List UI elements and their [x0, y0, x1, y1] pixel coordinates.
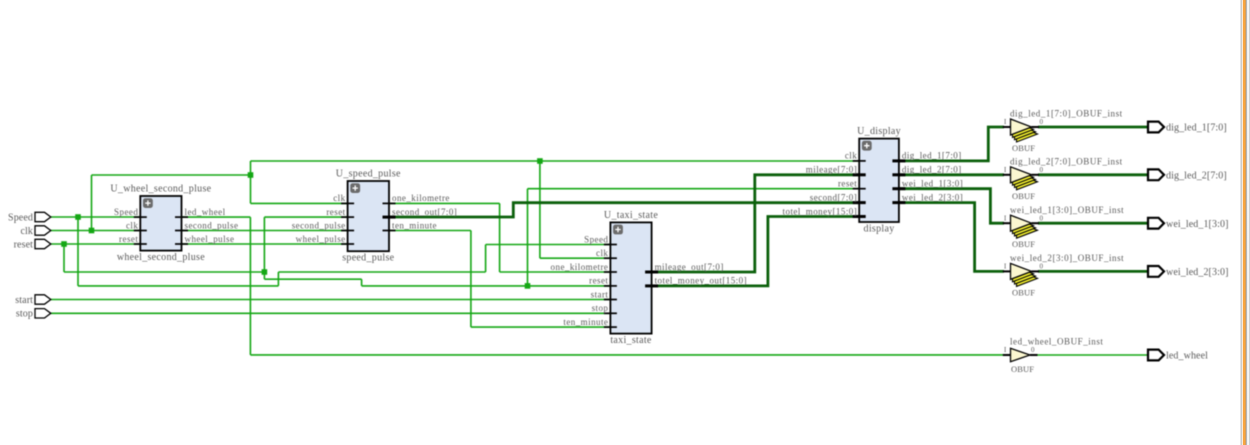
- svg-text:reset: reset: [838, 179, 857, 189]
- svg-text:Speed: Speed: [584, 234, 608, 244]
- svg-text:dig_led_2[7:0]: dig_led_2[7:0]: [1166, 170, 1227, 181]
- wire: bus dig_led_2[7:0] OBUF to output port: [1038, 173, 1149, 176]
- svg-text:wei_led_1[3:0]: wei_led_1[3:0]: [902, 179, 963, 189]
- svg-text:stop: stop: [16, 309, 33, 320]
- svg-text:OBUF: OBUF: [1011, 364, 1034, 374]
- svg-text:wheel_pulse: wheel_pulse: [296, 234, 346, 244]
- wire: net reset jog down at x=361.6: [361, 279, 363, 286]
- svg-text:0: 0: [1040, 263, 1044, 271]
- svg-text:second_pulse: second_pulse: [292, 220, 346, 230]
- block: U_wheel_second_pluse (wheel_second_pluse): [110, 184, 238, 264]
- wire: bus second_out[7:0] from U_speed_pulse: [389, 203, 861, 217]
- port: input Speed: [8, 212, 51, 223]
- buffer: dig_led_1[7:0]_OBUF_inst (OBUF): [1003, 109, 1123, 153]
- svg-text:wei_led_2[3:0]: wei_led_2[3:0]: [902, 192, 963, 202]
- svg-text:ten_minute: ten_minute: [563, 317, 608, 327]
- wire: bus wei_led_1[3:0] OBUF to output port: [1038, 222, 1149, 225]
- wire: bus wei_led_1[3:0] from U_display to OBUF: [899, 189, 1005, 224]
- wire: net clk branch into U_taxi_state clk pin: [540, 257, 611, 259]
- svg-text:reset: reset: [326, 207, 345, 217]
- port: output dig_led_2[7:0]: [1148, 169, 1227, 181]
- wire: net led_wheel long vertical at x=250.4: [249, 217, 251, 355]
- wire: net Speed into U_taxi_state Speed pin: [486, 244, 611, 246]
- svg-text:ten_minute: ten_minute: [392, 220, 437, 230]
- svg-text:mileage_out[7:0]: mileage_out[7:0]: [655, 262, 724, 272]
- svg-text:totel_money_out[15:0]: totel_money_out[15:0]: [655, 276, 747, 286]
- svg-text:I: I: [1004, 118, 1007, 126]
- svg-text:Speed: Speed: [8, 212, 33, 223]
- svg-text:I: I: [1004, 214, 1007, 222]
- svg-text:clk: clk: [845, 151, 857, 161]
- svg-text:clk: clk: [596, 248, 608, 258]
- wire: net ten_minute into U_taxi_state pin: [471, 326, 611, 328]
- svg-text:dig_led_2[7:0]: dig_led_2[7:0]: [902, 165, 962, 175]
- wire: net clk horizontal run y=175: [92, 174, 251, 176]
- svg-text:wei_led_1[3:0]_OBUF_inst: wei_led_1[3:0]_OBUF_inst: [1010, 205, 1124, 215]
- svg-text:one_kilometre: one_kilometre: [392, 193, 450, 203]
- wire: net led_wheel OBUF to output port: [1037, 354, 1150, 356]
- svg-text:wei_led_2[3:0]: wei_led_2[3:0]: [1166, 267, 1229, 278]
- svg-text:U_taxi_state: U_taxi_state: [604, 210, 658, 221]
- wire: net reset horizontal run y=272: [64, 271, 264, 273]
- svg-text:OBUF: OBUF: [1012, 287, 1035, 297]
- svg-text:wheel_pulse: wheel_pulse: [185, 234, 235, 244]
- node: junction clk at (539.9,161): [537, 158, 543, 164]
- wire: net reset horizontal run y=285.9 into U_taxi_state reset pin: [362, 285, 611, 287]
- svg-text:speed_pulse: speed_pulse: [342, 253, 394, 264]
- wire: net reset vertical rise at x=264.4 to U_speed_pulse reset row: [263, 217, 265, 272]
- svg-text:wei_led_2[3:0]_OBUF_inst: wei_led_2[3:0]_OBUF_inst: [1010, 253, 1124, 263]
- node: junction reset at (64,244): [61, 241, 67, 247]
- wire: net clk from input port to U_wheel_second_pluse: [50, 230, 141, 232]
- wire: net reset into U_speed_pulse reset pin: [264, 216, 348, 218]
- wire: net stop from input port to U_taxi_state: [50, 312, 611, 314]
- svg-text:second[7:0]: second[7:0]: [810, 192, 857, 202]
- wire: net start from input port to U_taxi_state: [50, 299, 611, 301]
- node: junction reset at (264.4,272): [262, 269, 268, 275]
- wire: net Speed vertical rise at x=485.6: [485, 245, 487, 273]
- wire: bus dig_led_1[7:0] from U_display to OBUF: [899, 127, 1005, 161]
- svg-text:taxi_state: taxi_state: [610, 335, 652, 346]
- svg-text:second_out[7:0]: second_out[7:0]: [392, 207, 457, 217]
- block: U_display (display): [783, 126, 964, 234]
- buffer: dig_led_2[7:0]_OBUF_inst (OBUF): [1003, 157, 1123, 201]
- wire: net clk vertical at x=250.5: [250, 161, 252, 203]
- wire: net one_kilometre from U_speed_pulse output: [389, 202, 500, 204]
- port: input stop: [16, 309, 51, 320]
- svg-text:led_wheel: led_wheel: [1166, 351, 1208, 362]
- svg-text:U_display: U_display: [857, 126, 901, 137]
- wire: net Speed from input port to U_wheel_second_pluse: [50, 216, 141, 218]
- svg-text:led_wheel: led_wheel: [185, 207, 226, 217]
- wire: net clk branch into U_speed_pulse clk pin: [251, 202, 349, 204]
- wire: net reset from input port to U_wheel_second_pluse: [50, 243, 141, 245]
- svg-text:0: 0: [1040, 166, 1044, 174]
- svg-text:0: 0: [1031, 346, 1035, 354]
- svg-text:dig_led_1[7:0]: dig_led_1[7:0]: [1166, 123, 1227, 134]
- wire: net Speed horizontal run y=285.9: [78, 285, 278, 287]
- svg-text:U_wheel_second_pluse: U_wheel_second_pluse: [110, 184, 211, 195]
- wire: net clk branch vertical at x=539.9 down to U_taxi_state: [539, 161, 541, 258]
- wire: net ten_minute vertical drop at x=470.9: [470, 231, 472, 328]
- node: junction Speed at (78,217): [75, 214, 81, 220]
- svg-text:second_pulse: second_pulse: [185, 220, 239, 230]
- port: output led_wheel: [1148, 350, 1208, 362]
- wire: net led_wheel long horizontal y=354.9 to OBUF: [250, 354, 1004, 356]
- svg-text:I: I: [1004, 166, 1007, 174]
- svg-text:0: 0: [1040, 118, 1044, 126]
- wire: net reset vertical drop at x=64: [63, 244, 65, 272]
- wire: bus wei_led_2[3:0] from U_display to OBUF: [899, 203, 1005, 272]
- svg-text:U_speed_pulse: U_speed_pulse: [336, 169, 401, 180]
- port: input reset: [14, 239, 51, 250]
- port: input start: [15, 295, 51, 306]
- wire: net one_kilometre into U_taxi_state pin: [500, 271, 611, 273]
- svg-text:totel_money[15:0]: totel_money[15:0]: [783, 206, 858, 216]
- wire: net Speed vertical rise at x=278.4: [277, 272, 279, 286]
- port: output wei_led_2[3:0]: [1148, 266, 1229, 278]
- svg-text:0: 0: [1040, 214, 1044, 222]
- svg-text:OBUF: OBUF: [1012, 143, 1035, 153]
- block: U_speed_pulse (speed_pulse): [292, 169, 458, 264]
- wire: net second_pulse from U_wheel_second_pluse to U_speed_pulse: [181, 230, 348, 232]
- wire: bus wei_led_2[3:0] OBUF to output port: [1038, 270, 1149, 273]
- wire: bus dig_led_2[7:0] from U_display to OBUF: [899, 173, 1005, 176]
- wire: net Speed vertical drop at x=78: [77, 217, 79, 286]
- wire: net wheel_pulse from U_wheel_second_pluse to U_speed_pulse: [181, 243, 348, 245]
- buffer: wei_led_2[3:0]_OBUF_inst (OBUF): [1003, 253, 1124, 297]
- node: junction reset at (527.5,285.9): [525, 283, 531, 289]
- svg-text:clk: clk: [20, 226, 33, 237]
- wire: net reset horizontal run y=279.2: [264, 278, 361, 280]
- svg-text:dig_led_1[7:0]_OBUF_inst: dig_led_1[7:0]_OBUF_inst: [1010, 109, 1123, 119]
- wire: net Speed horizontal run y=272: [278, 271, 485, 273]
- wire: net led_wheel from U_wheel_second_pluse output: [181, 216, 250, 218]
- svg-text:reset: reset: [119, 234, 138, 244]
- svg-text:OBUF: OBUF: [1012, 239, 1035, 249]
- buffer: led_wheel_OBUF_inst (OBUF): [1003, 337, 1104, 374]
- svg-text:dig_led_1[7:0]: dig_led_1[7:0]: [902, 151, 962, 161]
- svg-text:start: start: [591, 289, 609, 299]
- svg-text:start: start: [15, 295, 33, 306]
- wire: bus dig_led_1[7:0] OBUF to output port: [1038, 126, 1149, 129]
- svg-text:one_kilometre: one_kilometre: [551, 262, 609, 272]
- svg-text:I: I: [1004, 346, 1007, 354]
- svg-text:clk: clk: [126, 220, 138, 230]
- svg-text:Speed: Speed: [114, 207, 138, 217]
- svg-text:reset: reset: [14, 239, 33, 250]
- wire: net clk vertical rise at x=91.5: [91, 175, 93, 231]
- svg-text:dig_led_2[7:0]_OBUF_inst: dig_led_2[7:0]_OBUF_inst: [1010, 157, 1123, 167]
- wire: bus totel_money_out[15:0] from U_taxi_state to U_display: [651, 217, 860, 286]
- svg-text:stop: stop: [592, 303, 609, 313]
- wire: net clk long horizontal run y=161 to U_display clk: [251, 160, 861, 162]
- svg-text:OBUF: OBUF: [1012, 191, 1035, 201]
- wire: net reset jog down at x=264.4: [263, 272, 265, 279]
- buffer: wei_led_1[3:0]_OBUF_inst (OBUF): [1003, 205, 1124, 249]
- port: output dig_led_1[7:0]: [1148, 122, 1227, 134]
- node: junction clk at (91.5,230.5): [89, 228, 95, 234]
- svg-text:I: I: [1004, 263, 1007, 271]
- svg-text:wei_led_1[3:0]: wei_led_1[3:0]: [1166, 219, 1229, 230]
- block: U_taxi_state (taxi_state): [551, 210, 747, 346]
- svg-text:led_wheel_OBUF_inst: led_wheel_OBUF_inst: [1010, 337, 1103, 347]
- wire: net reset branch vertical at x=527.5 up to display row: [527, 189, 529, 286]
- svg-text:reset: reset: [589, 276, 608, 286]
- svg-text:wheel_second_pluse: wheel_second_pluse: [117, 252, 205, 263]
- wire: net reset branch horizontal y=188.7 into U_display reset pin: [528, 188, 861, 190]
- svg-text:mileage[7:0]: mileage[7:0]: [806, 165, 857, 175]
- node: junction clk at (250.5,175): [248, 172, 254, 178]
- port: output wei_led_1[3:0]: [1148, 218, 1229, 230]
- svg-text:display: display: [864, 224, 895, 235]
- svg-text:clk: clk: [333, 193, 345, 203]
- wire: bus mileage_out[7:0] from U_taxi_state to U_display: [651, 175, 860, 272]
- wire: net one_kilometre vertical drop at x=499.6: [499, 203, 501, 272]
- wire: net ten_minute from U_speed_pulse output: [389, 230, 471, 232]
- scrollbar strip at right edge: [1239, 0, 1250, 445]
- port: input clk: [20, 226, 50, 237]
